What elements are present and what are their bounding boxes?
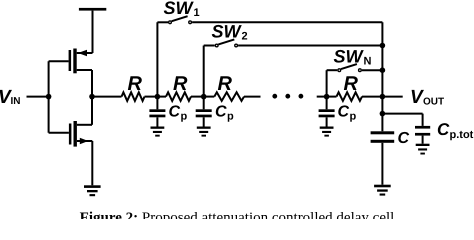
node 1 (155, 94, 161, 100)
svg-text:R: R (128, 73, 143, 95)
svg-text:C: C (437, 120, 450, 139)
node drain junction (89, 94, 95, 100)
svg-text:SW: SW (212, 22, 243, 42)
wire node1 to R2 and R2 to node 2 (157, 96, 166, 98)
label SW1 (164, 0, 200, 19)
label Vout (410, 87, 444, 108)
label CpN (338, 104, 357, 123)
switch SW1 (157, 16, 382, 96)
svg-text:V: V (410, 87, 424, 108)
node rail-Cptot branch (380, 111, 386, 117)
node gate junction (46, 94, 52, 100)
svg-text:p: p (227, 111, 234, 123)
svg-text:p: p (181, 111, 188, 123)
svg-text:R: R (218, 73, 233, 95)
svg-text:C: C (338, 104, 350, 121)
resistor R (last) (337, 92, 363, 101)
node rail-SW2 (380, 43, 386, 49)
ground (NMOS source) (84, 185, 101, 196)
M1 drain wire (77, 69, 92, 71)
M2 gate bar (69, 124, 72, 145)
capacitor Cp (node 1) (149, 97, 165, 137)
ground (C) (374, 185, 391, 196)
VDD supply bar (79, 8, 106, 11)
node Vout (380, 94, 386, 100)
capacitor Cp.tot (415, 126, 430, 144)
wire node2 to R3 and R3 tail (204, 96, 215, 98)
svg-text:p.tot: p.tot (450, 129, 474, 141)
svg-text:OUT: OUT (423, 97, 444, 108)
capacitor Cp (node N) (319, 97, 335, 137)
switch SWN (327, 64, 383, 97)
svg-text:R: R (344, 73, 359, 95)
ground (Cp.tot) (416, 144, 430, 155)
M2 gate wire (49, 132, 69, 134)
transistor M2 (NMOS) (49, 97, 93, 147)
wire gate line (48, 61, 50, 133)
label SWN (334, 47, 372, 68)
M1 gate wire (49, 60, 69, 62)
svg-text:IN: IN (11, 96, 21, 107)
wire NMOS source to ground (91, 141, 93, 185)
svg-text:p: p (350, 111, 357, 123)
wire Vin input (27, 96, 49, 98)
wire nodeN to RN and RN to output node (327, 96, 337, 98)
M1 channel bar (73, 49, 76, 74)
ellipsis dots (272, 94, 303, 99)
svg-text:2: 2 (242, 31, 248, 43)
node rail-SWN (380, 67, 386, 73)
M1 source wire (77, 52, 93, 54)
node 2 (201, 94, 207, 100)
switch SW2 (204, 39, 383, 96)
wire branch to Cp.tot (382, 114, 422, 126)
svg-text:SW: SW (164, 0, 195, 18)
M1 source arrow (78, 50, 87, 57)
wire R1 to node 1 (145, 96, 158, 98)
wire to Vout label (382, 96, 402, 98)
svg-text:C: C (398, 130, 410, 147)
resistor R (first) (122, 92, 145, 101)
M2 source wire (77, 140, 92, 142)
svg-text:C: C (169, 104, 181, 121)
wire drain node to R1 (92, 96, 122, 98)
label Cp1 (169, 104, 188, 123)
svg-text:C: C (215, 104, 227, 121)
svg-text:SW: SW (334, 47, 365, 67)
resistor R (third) (214, 92, 244, 101)
wire output rail (381, 22, 383, 131)
svg-text:N: N (364, 56, 372, 68)
label SW2 (212, 22, 248, 43)
capacitor Cp (node 2) (196, 97, 212, 137)
label Cp2 (215, 104, 234, 123)
label Cp.tot (437, 120, 474, 141)
M2 source arrow (80, 138, 89, 145)
caption (0, 211, 474, 226)
wire into node N (317, 96, 327, 98)
M1 gate bar (69, 50, 72, 71)
node N (324, 94, 330, 100)
wire VDD to PMOS source (92, 11, 94, 53)
label Vin (0, 87, 21, 108)
transistor M1 (PMOS) (49, 49, 93, 97)
M2 drain wire (77, 124, 92, 126)
M2 channel bar (74, 121, 77, 147)
svg-text:R: R (173, 73, 188, 95)
resistor R (second) (166, 92, 191, 101)
capacitor C (371, 131, 395, 184)
svg-text:1: 1 (194, 7, 200, 19)
